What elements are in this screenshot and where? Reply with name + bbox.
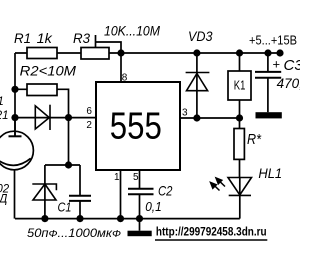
svg-text:1k: 1k [37,30,53,46]
svg-text:2: 2 [86,120,92,131]
svg-text:R3: R3 [73,30,90,46]
svg-text:1: 1 [0,96,4,108]
svg-text:C3: C3 [284,57,301,74]
svg-text:+: + [273,57,281,72]
svg-text:R*: R* [247,131,262,148]
svg-text:555: 555 [110,106,162,148]
svg-text:C2: C2 [158,183,173,199]
svg-text:+5...+15B: +5...+15B [249,34,297,48]
svg-text:VD3: VD3 [188,29,213,45]
svg-text:1: 1 [114,172,120,183]
svg-text:3: 3 [182,108,188,119]
svg-text:50пФ...1000мкФ: 50пФ...1000мкФ [27,226,121,240]
svg-text:6: 6 [86,106,92,117]
svg-text:21: 21 [0,110,8,122]
svg-text:HL1: HL1 [258,166,282,181]
svg-text:http://299792458.3dn.ru: http://299792458.3dn.ru [156,225,267,239]
svg-text:470,: 470, [277,76,300,91]
svg-text:C1: C1 [58,200,72,215]
svg-text:R1: R1 [14,30,31,46]
svg-text:10K...10M: 10K...10M [104,24,161,39]
svg-text:K1: K1 [234,78,246,93]
svg-text:5: 5 [133,172,139,183]
svg-text:Д: Д [0,193,7,205]
svg-text:0,1: 0,1 [145,199,162,214]
svg-text:8: 8 [122,72,128,83]
svg-text:R2<10M: R2<10M [20,62,77,78]
